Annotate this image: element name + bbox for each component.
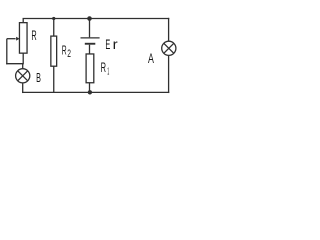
svg-text:A: A xyxy=(148,50,154,66)
label R1 xyxy=(101,60,110,77)
resistor R (rheostat body) xyxy=(19,23,27,54)
svg-text:E: E xyxy=(105,37,110,53)
label Er xyxy=(105,37,118,53)
svg-text:1: 1 xyxy=(107,66,109,77)
battery Er long plate xyxy=(81,37,100,39)
wire bottom bus xyxy=(22,91,169,93)
wire lamp A top lead xyxy=(168,18,170,41)
wire rheostat top stub xyxy=(22,19,24,23)
junction node: battery / top bus xyxy=(87,16,92,21)
wire R2 top lead xyxy=(53,19,55,36)
wire R1 bottom lead xyxy=(89,83,91,93)
resistor R2 xyxy=(51,36,57,66)
svg-text:R: R xyxy=(101,60,107,75)
label R2 xyxy=(62,43,71,60)
wire battery top lead xyxy=(89,19,91,38)
wire lamp A bottom lead xyxy=(168,55,170,93)
wire battery to R1 xyxy=(89,45,91,54)
wire rheostat bottom down xyxy=(22,53,24,64)
battery Er short plate xyxy=(85,43,96,45)
svg-text:R: R xyxy=(62,43,67,58)
resistor R1 xyxy=(86,54,94,83)
junction node: R1 / bottom bus xyxy=(88,90,92,94)
wire wiper-to-branch connector xyxy=(6,63,23,65)
wire wiper tail down xyxy=(6,39,8,65)
svg-text:2: 2 xyxy=(67,48,71,60)
wire lamp B bottom stub xyxy=(22,83,24,93)
wire R2 bottom lead xyxy=(53,66,55,92)
wire top bus xyxy=(23,18,170,20)
svg-text:R: R xyxy=(31,28,36,43)
svg-text:B: B xyxy=(36,70,41,85)
wire lamp B top stub xyxy=(22,64,24,69)
lamp B xyxy=(16,69,30,83)
junction node: R2 / top bus xyxy=(52,17,55,20)
rheostat wiper arrow xyxy=(7,37,20,41)
lamp A xyxy=(162,41,176,55)
svg-text:r: r xyxy=(113,37,118,53)
